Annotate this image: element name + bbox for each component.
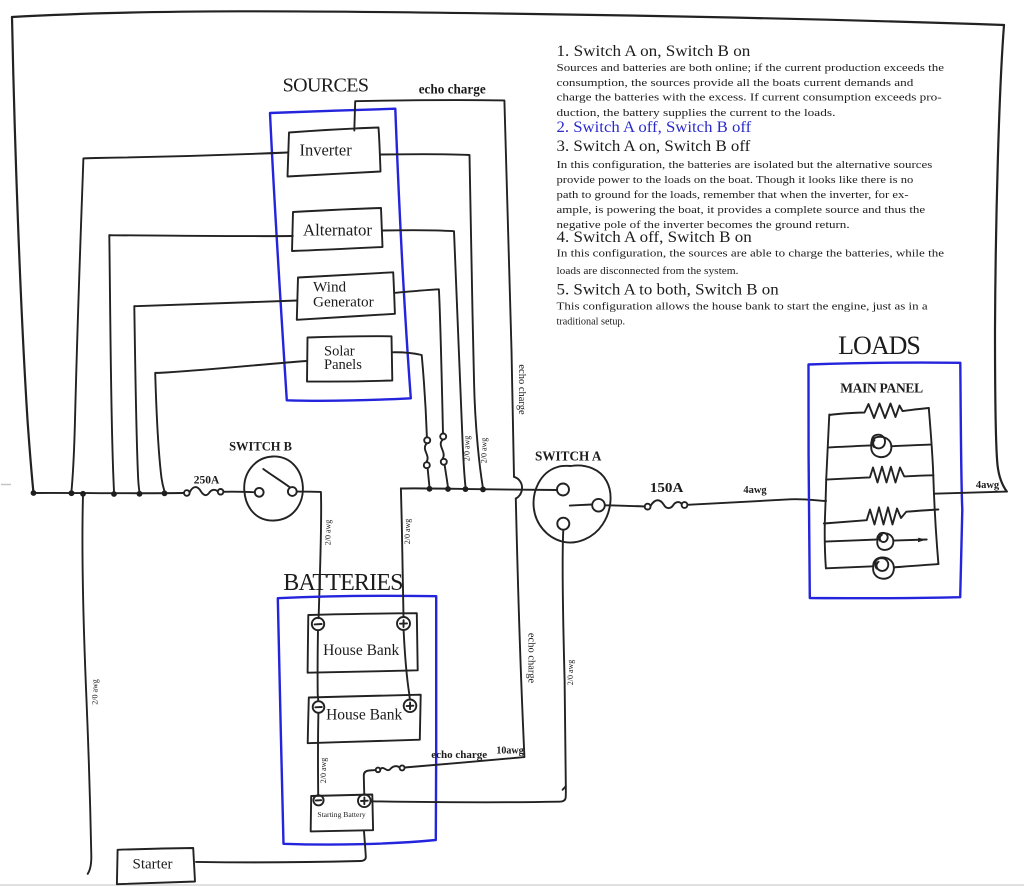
svg-text:loads are disconnected from th: loads are disconnected from the system.: [557, 265, 739, 277]
wire: inverter positive feed: [381, 154, 483, 487]
svg-text:4awg: 4awg: [743, 485, 767, 496]
svg-text:This configuration allows the: This configuration allows the house bank…: [557, 301, 928, 313]
wire: echo charge down to battery fuse: [516, 499, 525, 758]
wire: 4awg from panel to border: [934, 492, 1007, 494]
fuse (wind feed): [440, 434, 448, 488]
svg-text:Sources and batteries are both: Sources and batteries are both online; i…: [557, 62, 945, 74]
fuse 250A: [184, 487, 223, 496]
solar panels box: [307, 336, 392, 381]
switch A body: [534, 465, 611, 542]
svg-text:4. Switch A off, Switch B on: 4. Switch A off, Switch B on: [557, 229, 752, 246]
svg-text:Generator: Generator: [313, 294, 374, 311]
svg-text:BATTERIES: BATTERIES: [283, 570, 402, 596]
svg-text:2/0 awg: 2/0 awg: [91, 679, 100, 705]
svg-text:4awg: 4awg: [976, 480, 1000, 491]
main panel left rail: [825, 415, 830, 569]
wire: bus drop to house bank 1 positive: [401, 488, 404, 617]
wire: house bank 1 neg to house bank 2 neg: [317, 630, 320, 701]
resistor load 1 (top edge): [829, 404, 929, 419]
svg-text:SOURCES: SOURCES: [283, 75, 369, 97]
starting battery positive terminal: [358, 795, 371, 808]
svg-text:SWITCH A: SWITCH A: [535, 448, 602, 463]
starting battery box: [311, 795, 373, 832]
svg-text:In this configuration, the bat: In this configuration, the batteries are…: [557, 159, 933, 171]
wire: solar positive feed (top): [393, 352, 427, 437]
decorative faint bottom rule: [0, 884, 1024, 886]
tick on switch A drop: [563, 786, 566, 790]
wire: wind generator positive feed (top): [395, 289, 443, 433]
wire: starting battery to starter: [196, 832, 366, 863]
fuse (echo charge): [376, 765, 405, 772]
node: solar return junction: [162, 490, 168, 496]
node: solar feed junction: [427, 486, 433, 492]
wire: alternator positive feed: [383, 230, 466, 487]
resistor load 3 rung: [824, 507, 939, 524]
svg-text:2/0 awg: 2/0 awg: [566, 660, 575, 686]
lamp load 2 rung: [825, 540, 877, 542]
batteries group box (blue): [278, 596, 437, 845]
svg-text:echo charge: echo charge: [526, 633, 537, 684]
resistor load 2 rung: [826, 467, 933, 483]
wire: house bank 2 neg to starting battery neg: [317, 713, 319, 795]
node: wind feed junction: [445, 486, 451, 492]
svg-text:traditional setup.: traditional setup.: [557, 316, 626, 328]
svg-text:Inverter: Inverter: [299, 141, 352, 160]
svg-text:2/0 awg: 2/0 awg: [324, 520, 333, 546]
svg-text:LOADS: LOADS: [838, 331, 920, 360]
node: inverter feed junction: [480, 487, 486, 493]
svg-text:1. Switch A on, Switch B on: 1. Switch A on, Switch B on: [557, 43, 751, 60]
switch B body: [244, 456, 303, 520]
alternator box: [292, 208, 383, 251]
wind generator box: [297, 272, 395, 320]
svg-text:echo charge: echo charge: [516, 364, 527, 415]
svg-text:2/0 awg: 2/0 awg: [463, 436, 472, 462]
wire: house bank 1 pos to house bank 2 pos: [404, 630, 410, 700]
switch A top terminal: [557, 484, 569, 496]
wire: inverter negative to bus: [72, 153, 288, 492]
wire: echo charge fuse from starting battery positive: [364, 770, 376, 794]
wire: fuse to switch B: [223, 491, 254, 494]
switch A lever: [570, 505, 592, 506]
wire: wind generator negative to bus: [134, 301, 297, 492]
wire: alternator negative to bus: [109, 235, 292, 491]
svg-text:250A: 250A: [194, 475, 220, 487]
svg-text:5. Switch A to both, Switch B: 5. Switch A to both, Switch B on: [557, 282, 779, 299]
house bank 1 box: [308, 613, 418, 673]
svg-text:House Bank: House Bank: [326, 707, 402, 724]
house bank 1 negative terminal: [312, 618, 324, 630]
switch A right terminal: [592, 499, 605, 512]
house bank 1 positive terminal: [397, 617, 410, 630]
svg-text:House Bank: House Bank: [323, 642, 399, 659]
svg-text:echo charge: echo charge: [419, 82, 486, 97]
wire: page border right: [995, 25, 1007, 492]
svg-text:path to ground for the loads,: path to ground for the loads, remember t…: [557, 189, 910, 201]
svg-text:2. Switch A off, Switch B off: 2. Switch A off, Switch B off: [557, 119, 752, 136]
sources group box (blue): [270, 109, 411, 401]
svg-text:Starter: Starter: [133, 856, 173, 872]
switch B terminal 1: [255, 488, 264, 497]
svg-text:In this configuration, the sou: In this configuration, the sources are a…: [557, 247, 945, 259]
svg-text:2/0 awg: 2/0 awg: [403, 519, 412, 545]
wire: switch A bottom to starting battery positive: [371, 530, 566, 802]
wire: solar negative to bus: [155, 361, 307, 491]
wire: echo charge 10awg run: [405, 757, 525, 767]
switch B terminal 2: [288, 487, 297, 496]
arrow tick on lamp rung: [918, 538, 926, 543]
svg-text:SWITCH B: SWITCH B: [229, 440, 292, 454]
svg-text:Panels: Panels: [324, 357, 362, 373]
node: inverter return junction: [69, 490, 75, 496]
wire: bus to starter (left drop): [82, 495, 91, 874]
node: wind generator return junction: [137, 491, 143, 497]
svg-text:ample, is powering the boat, i: ample, is powering the boat, it provides…: [557, 204, 926, 216]
lamp load 3 (bottom edge): [826, 566, 873, 568]
svg-text:150A: 150A: [650, 480, 684, 495]
node: alternator feed junction: [463, 486, 469, 492]
fuse (solar feed): [424, 437, 430, 487]
svg-text:2/0 awg: 2/0 awg: [319, 758, 328, 784]
starter box: [117, 848, 195, 884]
svg-text:Starting Battery: Starting Battery: [317, 810, 365, 819]
node: alternator return junction: [111, 491, 117, 497]
switch A bottom terminal: [557, 518, 569, 530]
lamp load 1 rung: [829, 445, 871, 447]
wire: echo charge hop over bus: [514, 477, 522, 499]
svg-text:provide power to the loads on: provide power to the loads on the boat. …: [557, 174, 914, 186]
switch B lever: [263, 469, 290, 487]
node: bus-border junction: [31, 490, 37, 496]
wire: switch B to house bank negative: [297, 492, 321, 619]
wire: page border left: [12, 17, 34, 493]
svg-text:duction, the battery supplies: duction, the battery supplies the curren…: [557, 107, 836, 119]
inverter box: [288, 128, 381, 177]
svg-text:charge the batteries with the: charge the batteries with the excess. If…: [557, 92, 943, 104]
wire: echo charge from inverter top: [354, 100, 514, 477]
fuse 150A: [605, 500, 687, 509]
svg-text:2/0 awg: 2/0 awg: [480, 438, 489, 464]
svg-text:echo charge: echo charge: [431, 749, 487, 761]
svg-text:3. Switch A on, Switch B off: 3. Switch A on, Switch B off: [557, 138, 752, 155]
node: starter branch junction: [80, 491, 86, 497]
svg-text:MAIN PANEL: MAIN PANEL: [840, 381, 923, 396]
main panel right rail: [929, 408, 939, 564]
house bank 2 box: [308, 695, 421, 744]
loads group box (blue): [808, 363, 962, 599]
house bank 2 negative terminal: [313, 701, 325, 713]
svg-text:consumption, the sources provi: consumption, the sources provide all the…: [557, 77, 915, 89]
svg-text:10awg: 10awg: [496, 746, 523, 757]
wire: right bus segment: [401, 488, 557, 490]
wire: main bus left segment: [34, 492, 184, 494]
text block: [557, 43, 945, 328]
house bank 2 positive terminal: [404, 700, 417, 713]
svg-text:Alternator: Alternator: [303, 221, 372, 240]
starting battery negative terminal: [313, 795, 323, 805]
wire: 4awg feed to main panel: [687, 499, 826, 505]
wire: page border top (return bus): [12, 11, 1004, 25]
